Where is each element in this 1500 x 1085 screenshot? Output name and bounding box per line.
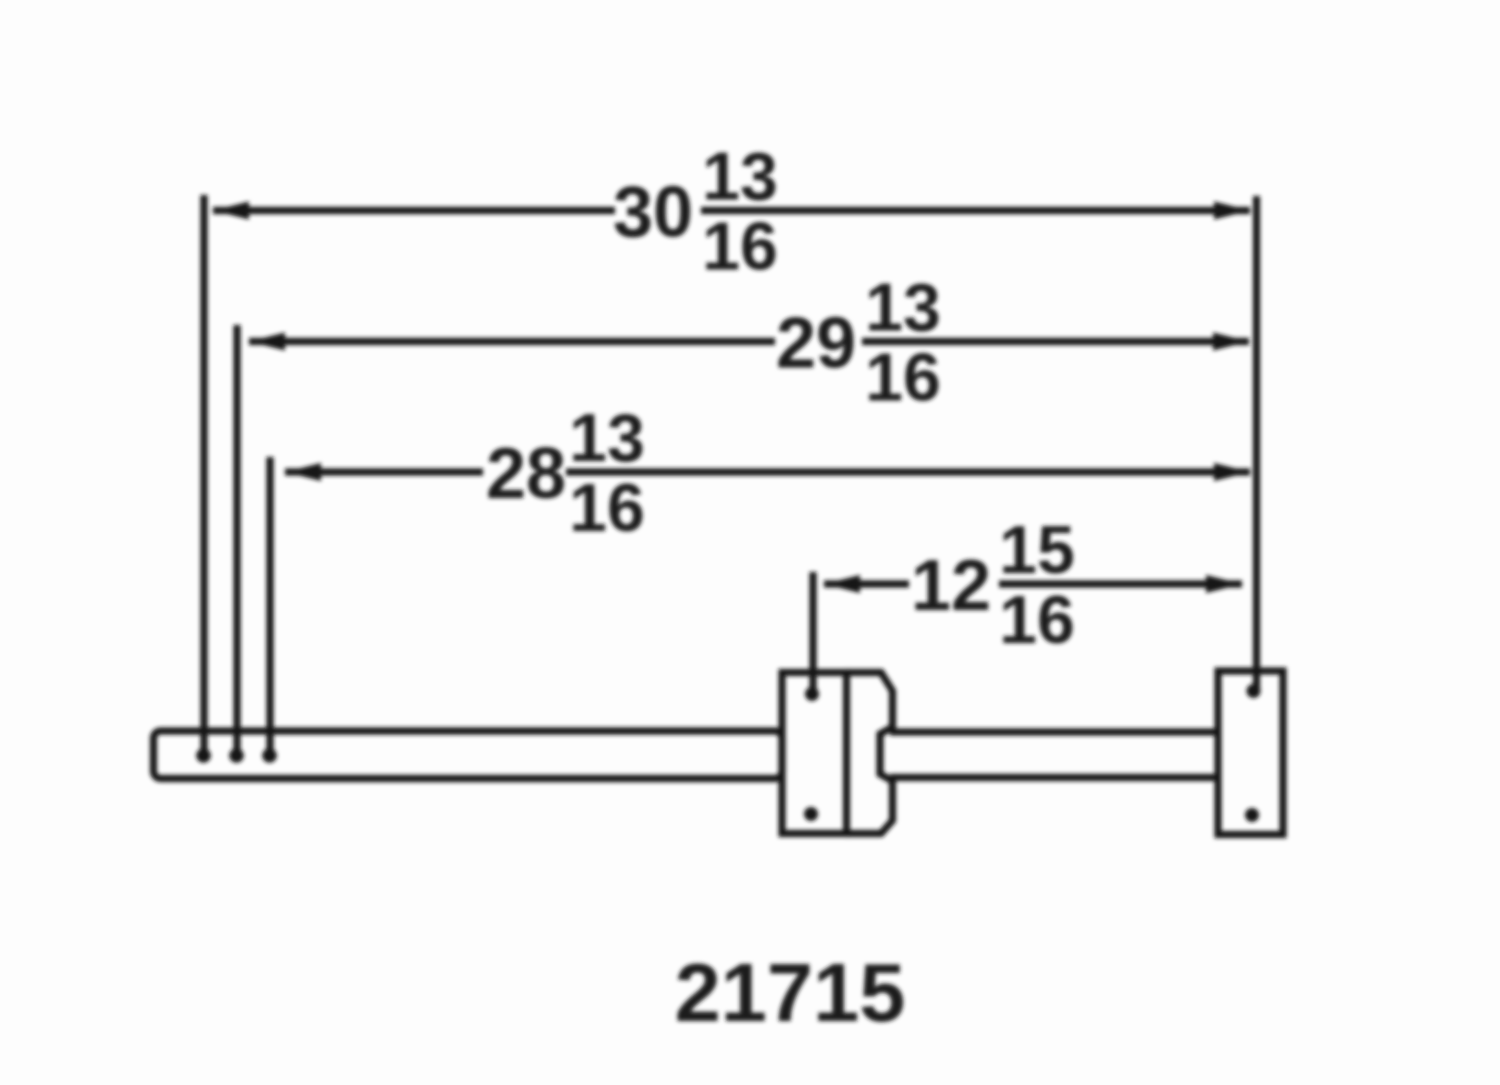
svg-text:30: 30 bbox=[613, 173, 693, 253]
svg-text:12: 12 bbox=[911, 546, 991, 626]
svg-text:13: 13 bbox=[702, 139, 778, 215]
svg-text:21715: 21715 bbox=[675, 946, 906, 1039]
svg-text:16: 16 bbox=[569, 470, 645, 546]
svg-text:16: 16 bbox=[865, 340, 941, 416]
svg-text:16: 16 bbox=[999, 582, 1075, 658]
svg-text:29: 29 bbox=[776, 304, 856, 384]
svg-text:16: 16 bbox=[702, 209, 778, 285]
svg-text:15: 15 bbox=[999, 512, 1075, 588]
svg-text:28: 28 bbox=[486, 434, 566, 514]
svg-text:13: 13 bbox=[569, 400, 645, 476]
svg-text:13: 13 bbox=[865, 270, 941, 346]
